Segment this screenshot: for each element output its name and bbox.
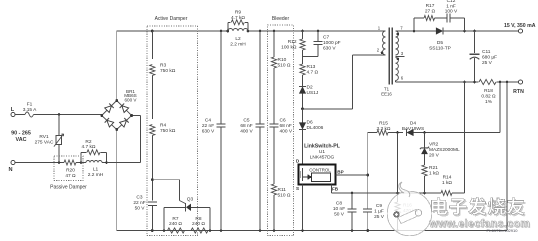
svg-text:R7: R7 — [172, 216, 178, 222]
svg-text:VR2: VR2 — [429, 142, 439, 148]
svg-text:22 nF: 22 nF — [133, 200, 145, 206]
svg-text:FB: FB — [332, 187, 339, 192]
wire source to bus — [302, 185, 304, 231]
svg-text:R2: R2 — [85, 139, 91, 145]
svg-text:15 V, 350 mA: 15 V, 350 mA — [504, 23, 536, 29]
svg-text:Passive Damper: Passive Damper — [50, 185, 87, 191]
svg-text:90 - 265: 90 - 265 — [11, 131, 31, 137]
svg-text:68 nF: 68 nF — [240, 123, 252, 129]
bleeder box — [268, 25, 294, 236]
svg-text:Q3: Q3 — [187, 197, 194, 203]
terminal L — [11, 112, 15, 116]
svg-text:22 nF: 22 nF — [202, 123, 214, 129]
transformer T1 bias winding — [396, 58, 399, 81]
watermark elecfans text — [433, 199, 449, 216]
svg-text:1 kΩ: 1 kΩ — [429, 171, 439, 177]
wire top bus — [117, 30, 228, 32]
diode D4 — [406, 129, 413, 136]
svg-text:68 nF: 68 nF — [280, 123, 292, 129]
node drain junction — [301, 107, 304, 110]
svg-text:2.2 mH: 2.2 mH — [88, 172, 104, 178]
svg-text:1 kΩ: 1 kΩ — [442, 180, 452, 186]
bridge BR1 — [102, 101, 117, 116]
resistor R10 — [273, 31, 275, 57]
terminal 15V output — [518, 29, 522, 33]
svg-text:400 V: 400 V — [280, 129, 293, 135]
wire BP — [336, 174, 368, 176]
svg-text:3.3 kΩ: 3.3 kΩ — [377, 126, 391, 132]
svg-text:R4: R4 — [160, 123, 166, 129]
svg-text:R11: R11 — [278, 187, 287, 193]
diode D2 — [302, 75, 304, 86]
svg-text:Active Damper: Active Damper — [155, 16, 188, 22]
svg-text:600 V: 600 V — [124, 98, 137, 103]
svg-text:47 Ω: 47 Ω — [65, 173, 76, 179]
node R15 D4 junction — [388, 132, 403, 134]
varistor RV1 — [58, 115, 60, 136]
resistor R8 — [191, 228, 208, 233]
svg-text:U1: U1 — [319, 149, 325, 155]
svg-text:C3: C3 — [136, 195, 142, 201]
svg-text:C7: C7 — [323, 35, 329, 41]
fuse F1 — [25, 112, 34, 117]
capacitor C5 — [259, 31, 261, 124]
svg-text:SS110-TP: SS110-TP — [429, 46, 451, 52]
svg-text:DL4006: DL4006 — [307, 125, 324, 131]
watermark badge — [387, 182, 432, 236]
wire N to bridge — [107, 162, 141, 164]
svg-text:1 µF: 1 µF — [374, 209, 384, 215]
resistor R21 — [422, 165, 427, 176]
svg-text:20 V: 20 V — [429, 153, 440, 159]
capacitor C11 — [474, 31, 476, 53]
svg-text:R18: R18 — [484, 88, 493, 94]
svg-text:275 VAC: 275 VAC — [35, 140, 54, 146]
transformer T1 primary winding — [383, 31, 386, 55]
svg-text:400 V: 400 V — [240, 129, 253, 135]
active damper box — [147, 26, 198, 236]
transformer T1 secondary winding — [396, 31, 399, 55]
svg-text:D5: D5 — [437, 40, 443, 46]
svg-text:3.15 A: 3.15 A — [23, 107, 37, 113]
diode D5 — [436, 27, 443, 34]
wire secondary output line — [396, 30, 436, 32]
svg-text:1%: 1% — [485, 99, 493, 105]
svg-text:R17: R17 — [426, 3, 435, 9]
svg-text:BP: BP — [337, 170, 343, 175]
svg-text:750 kΩ: 750 kΩ — [160, 68, 176, 74]
svg-text:0.82 Ω: 0.82 Ω — [481, 94, 496, 100]
svg-text:C9: C9 — [376, 203, 382, 209]
svg-text:PI-6171b-102910: PI-6171b-102910 — [487, 228, 519, 233]
diode D6 — [302, 109, 304, 123]
svg-text:VAC: VAC — [16, 137, 27, 143]
resistor R9 parallel branch — [227, 22, 229, 31]
inductor L1 — [86, 161, 102, 163]
svg-text:R8: R8 — [195, 216, 201, 222]
node passive damper right — [105, 161, 108, 164]
svg-text:US1J: US1J — [307, 90, 319, 96]
resistor R13 — [302, 50, 304, 64]
resistor R11 — [271, 184, 276, 195]
svg-text:R13: R13 — [307, 64, 316, 70]
snubber branch R17 C12 — [413, 18, 415, 31]
svg-text:D4: D4 — [410, 121, 416, 127]
svg-text:R10: R10 — [278, 57, 287, 63]
svg-text:680 µF: 680 µF — [482, 55, 497, 61]
wire RTN ground rail — [506, 82, 508, 231]
svg-text:C4: C4 — [205, 118, 211, 124]
svg-text:2.2 mH: 2.2 mH — [230, 42, 246, 48]
svg-text:R9: R9 — [235, 10, 241, 16]
svg-text:F1: F1 — [27, 102, 33, 108]
svg-text:C5: C5 — [243, 118, 249, 124]
capacitor C7 — [317, 31, 319, 41]
resistor R20 — [64, 160, 76, 165]
svg-text:750 kΩ: 750 kΩ — [160, 128, 176, 134]
capacitor C9 BP rail — [367, 133, 369, 209]
terminal N — [11, 160, 15, 164]
svg-text:LNK457DG: LNK457DG — [310, 154, 335, 160]
wire bridge positive rail — [116, 31, 118, 101]
svg-text:4.7 kΩ: 4.7 kΩ — [82, 144, 96, 150]
svg-text:240 Ω: 240 Ω — [192, 221, 205, 227]
passive damper box — [54, 156, 83, 181]
svg-text:50 V: 50 V — [334, 212, 345, 218]
svg-text:L: L — [11, 107, 15, 113]
svg-text:BAV19WS: BAV19WS — [402, 126, 424, 132]
svg-text:Bleeder: Bleeder — [272, 16, 290, 22]
wire sense to bias line — [499, 82, 501, 133]
svg-text:27 Ω: 27 Ω — [425, 9, 436, 15]
inductor L2 — [228, 29, 248, 31]
capacitor C8 — [351, 193, 353, 209]
wire FB line — [331, 185, 333, 194]
wire FB sense rail — [464, 82, 466, 193]
svg-text:1 nF: 1 nF — [446, 3, 456, 9]
svg-text:RV1: RV1 — [39, 134, 49, 140]
capacitor C12 — [446, 14, 448, 23]
resistor R4 — [151, 76, 153, 120]
svg-text:L1: L1 — [93, 167, 99, 173]
svg-text:EE16: EE16 — [381, 91, 392, 96]
svg-text:510 Ω: 510 Ω — [278, 193, 291, 199]
transformer T1 core — [388, 28, 390, 85]
svg-text:4.7 kΩ: 4.7 kΩ — [231, 15, 245, 21]
svg-text:50 V: 50 V — [135, 206, 146, 212]
svg-text:1000 pF: 1000 pF — [323, 40, 341, 46]
svg-text:S: S — [296, 186, 299, 191]
svg-text:D6: D6 — [307, 120, 313, 126]
svg-text:L2: L2 — [235, 36, 241, 42]
svg-text:100 kΩ: 100 kΩ — [281, 45, 297, 51]
svg-text:100 V: 100 V — [445, 9, 458, 15]
capacitor C3 — [148, 201, 157, 203]
svg-text:R14: R14 — [443, 175, 452, 181]
terminal RTN — [518, 80, 522, 84]
svg-text:LinkSwitch-PL: LinkSwitch-PL — [304, 144, 341, 150]
resistor R12 — [302, 31, 304, 39]
wire bridge negative rail — [116, 130, 118, 231]
svg-text:630 V: 630 V — [202, 129, 215, 135]
resistor R2 parallel branch — [80, 152, 82, 162]
svg-text:C8: C8 — [336, 201, 342, 207]
svg-text:R3: R3 — [160, 63, 166, 69]
svg-text:25 V: 25 V — [374, 214, 385, 220]
node passive damper left — [80, 161, 83, 164]
svg-text:C11: C11 — [482, 49, 491, 55]
zener VR2 — [421, 148, 428, 154]
resistor R17 — [424, 16, 435, 21]
resistor R14 — [441, 191, 452, 196]
svg-text:R15: R15 — [379, 121, 388, 127]
thyristor Q3 — [164, 206, 186, 208]
wire drain jog from pin 2 — [353, 54, 386, 56]
wire D4 to sense rail — [425, 132, 501, 134]
capacitor C4 — [220, 31, 222, 124]
resistor R18 — [479, 79, 496, 84]
svg-text:C6: C6 — [280, 118, 286, 124]
svg-text:R21: R21 — [429, 165, 438, 171]
wire Q3 gate — [152, 179, 179, 181]
wire R4 to C3 — [151, 136, 153, 201]
svg-text:N: N — [8, 167, 12, 173]
resistor R16 hidden — [397, 133, 399, 203]
wire bias line — [368, 132, 377, 134]
svg-text:240 Ω: 240 Ω — [169, 221, 182, 227]
wire L line — [15, 114, 25, 116]
resistor R15 — [377, 130, 388, 135]
svg-text:630 V: 630 V — [323, 46, 336, 52]
wire N line — [15, 162, 64, 164]
wire Q3 bypass legs — [163, 207, 165, 230]
svg-text:25 V: 25 V — [482, 60, 493, 66]
svg-text:MAZS2000ML: MAZS2000ML — [429, 147, 460, 153]
svg-text:RTN: RTN — [513, 89, 524, 95]
svg-text:D2: D2 — [307, 85, 313, 91]
svg-text:R12: R12 — [288, 39, 297, 45]
wire bottom bus — [117, 230, 507, 232]
svg-text:10 nF: 10 nF — [333, 206, 345, 212]
svg-text:510 Ω: 510 Ω — [278, 63, 291, 69]
wire output return rail — [396, 81, 479, 83]
svg-text:CONTROL: CONTROL — [309, 168, 331, 173]
resistor R3 — [151, 31, 153, 59]
capacitor C6 — [273, 68, 275, 124]
svg-text:4.7 Ω: 4.7 Ω — [307, 70, 319, 76]
resistor R7 — [168, 228, 185, 233]
svg-text:R20: R20 — [66, 168, 75, 174]
